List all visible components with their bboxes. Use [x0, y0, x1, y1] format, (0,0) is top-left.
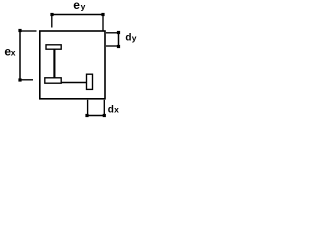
svg-text:y: y [81, 1, 86, 11]
svg-text:x: x [11, 48, 16, 58]
svg-text:e: e [73, 0, 80, 12]
svg-text:d: d [108, 105, 114, 116]
svg-text:y: y [132, 33, 137, 43]
svg-text:x: x [114, 105, 119, 115]
svg-text:d: d [125, 33, 131, 44]
